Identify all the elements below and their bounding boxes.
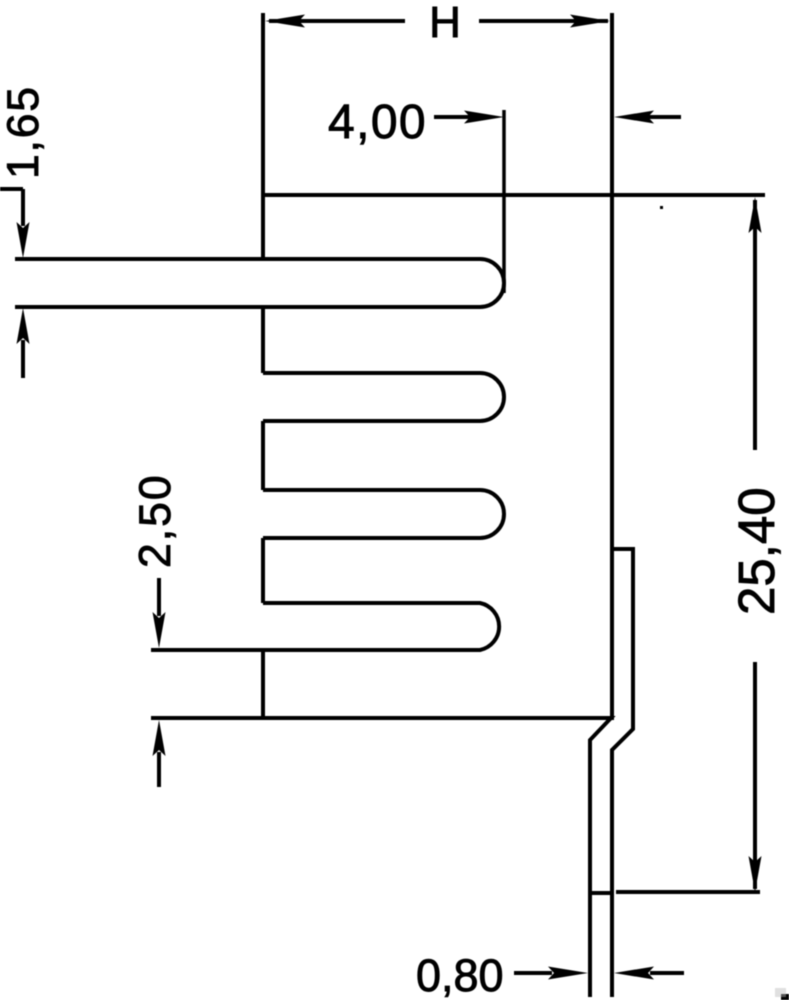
svg-text:1,65: 1,65: [0, 85, 48, 179]
svg-text:25,40: 25,40: [728, 487, 785, 615]
svg-text:0,80: 0,80: [416, 950, 504, 1000]
svg-text:H: H: [429, 0, 461, 47]
svg-text:4,00: 4,00: [328, 96, 427, 149]
svg-text:2,50: 2,50: [131, 473, 180, 568]
